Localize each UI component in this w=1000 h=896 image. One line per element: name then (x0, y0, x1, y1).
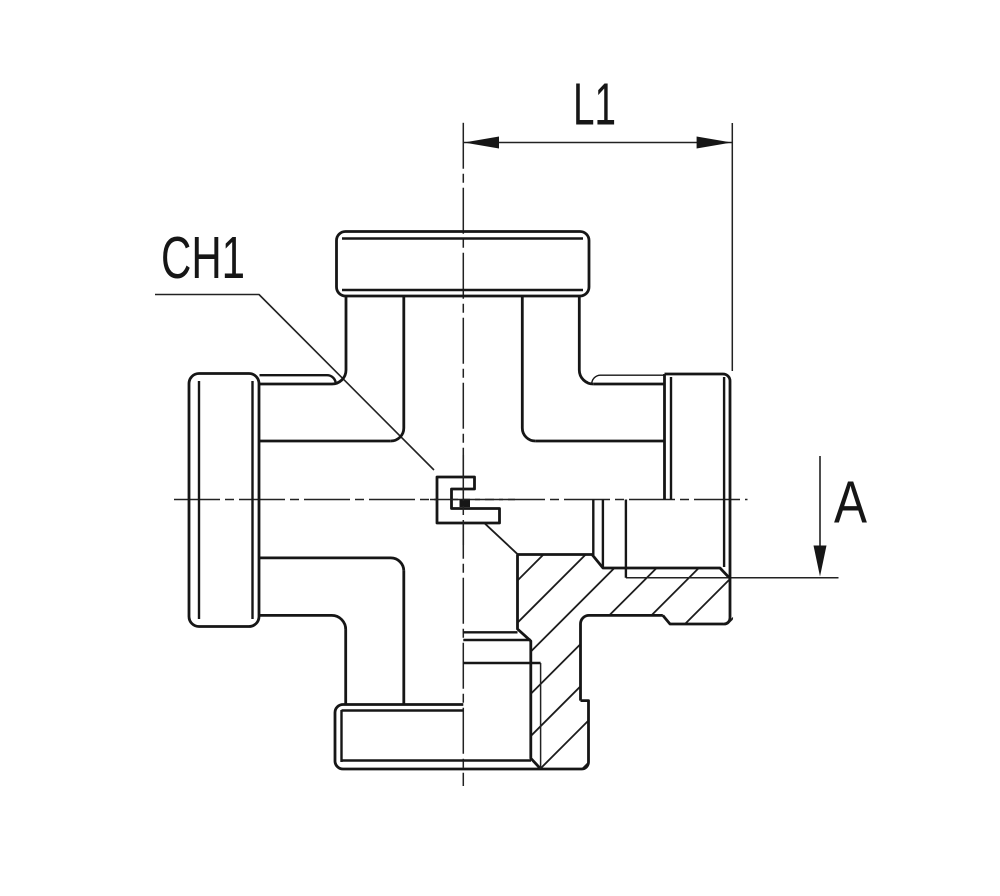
right port step face 1 (592, 500, 594, 556)
right nut right face (724, 381, 731, 624)
top arm inner right line with fillet (522, 296, 535, 441)
section arm chamfer to nut bottom (663, 615, 724, 624)
dimension A arrow line (819, 456, 821, 546)
top arm outer right line with fillet (579, 296, 593, 384)
top nut body (337, 232, 590, 297)
top nut upper chamfer line (342, 237, 583, 239)
left nut left chamfer line (198, 381, 200, 619)
centerline crossing logo vertical (462, 455, 464, 545)
CH1 leader line (155, 295, 434, 471)
left arm inner bottom line with fillet (260, 558, 404, 571)
right nut top face with corner (665, 374, 731, 381)
right arm top edge (593, 383, 664, 386)
right port thread end line (625, 500, 627, 578)
horizontal centerline (174, 499, 748, 501)
logo stamp notch (460, 500, 471, 507)
vertical centerline (462, 123, 464, 786)
svg-text:CH1: CH1 (161, 225, 245, 291)
section outer corner of arms (581, 615, 663, 700)
left arm collar line (260, 375, 336, 384)
left arm top edge (260, 383, 333, 386)
bottom port thread end line (463, 662, 540, 664)
centerline crossing logo horizontal (430, 499, 520, 501)
bottom nut bottom face (343, 768, 582, 771)
dimension L1 line (463, 142, 732, 144)
dimension A arrowhead (814, 546, 827, 577)
bottom nut left chamfer line (340, 710, 342, 762)
right port step face 2 (602, 500, 604, 569)
top nut lower chamfer line (342, 289, 583, 291)
section cavity floor (518, 555, 730, 578)
bottom port step face 1 (463, 631, 517, 633)
bottom nut left face with corners (335, 705, 343, 770)
right nut left face (663, 374, 666, 500)
bottom nut top face (343, 703, 463, 706)
hatching of cut section (298, 480, 871, 800)
left nut right chamfer line (251, 381, 253, 619)
bottom nut right face in section (581, 701, 589, 769)
right arm inner line (535, 440, 664, 443)
bottom arm inner left line (402, 571, 405, 705)
top arm outer left line with fillet (332, 296, 346, 384)
svg-text:L1: L1 (573, 72, 616, 138)
bottom port thread major line (540, 663, 542, 769)
section boundary diagonal at centre (485, 523, 518, 554)
thread major line and A reference line (626, 577, 839, 579)
left arm inner top line (260, 440, 391, 443)
section bottom port wall (518, 555, 541, 769)
bottom port step face 2 (463, 639, 531, 641)
logo stamp E at centre (437, 477, 500, 523)
svg-text:A: A (834, 470, 868, 536)
left nut body (189, 374, 259, 627)
right arm collar line (592, 375, 665, 384)
top arm inner left line with fillet (391, 296, 404, 441)
bottom arm outer left line (344, 630, 347, 705)
right nut right chamfer line (723, 377, 725, 567)
bottom nut bottom chamfer line (342, 759, 532, 761)
right nut left chamfer line (670, 377, 672, 500)
dimension L1 extension line right (731, 123, 733, 371)
dimension L1 left arrowhead (464, 137, 499, 149)
left arm bottom edge with fillet (260, 615, 346, 630)
dimension L1 right arrowhead (697, 137, 732, 149)
bottom nut top chamfer line (342, 709, 464, 711)
